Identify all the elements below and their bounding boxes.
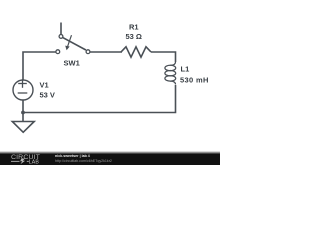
switch SW1 right terminal circle: [86, 50, 90, 54]
ground: [22, 113, 24, 122]
svg-text:L1: L1: [181, 64, 190, 73]
switch SW1 actuation arrow: [68, 35, 72, 46]
switch SW1 arrowhead: [65, 46, 70, 51]
junction node dot: [21, 111, 25, 115]
svg-text:53 V: 53 V: [40, 90, 55, 99]
svg-text:R1: R1: [129, 22, 139, 31]
wire inductor to bottom-right corner: [23, 85, 176, 113]
wire resistor to top-right corner: [151, 52, 176, 62]
CircuitLab logo: [11, 154, 40, 166]
voltage source V1: [13, 80, 33, 100]
switch SW1 blade: [63, 38, 86, 50]
svg-text:LAB: LAB: [29, 160, 40, 165]
svg-text:53 Ω: 53 Ω: [126, 32, 142, 41]
switch SW1 pole stub: [60, 23, 62, 35]
V1 plus sign: [18, 79, 28, 93]
inductor L1: [165, 62, 176, 85]
V1 minus sign: [18, 92, 28, 94]
svg-text:V1: V1: [40, 80, 49, 89]
switch SW1 pole circle: [59, 35, 63, 39]
labels: [40, 22, 209, 99]
svg-text:530 mH: 530 mH: [180, 75, 209, 84]
resistor R1: [121, 47, 151, 57]
switch SW1 left terminal circle: [56, 50, 60, 54]
wire switch to resistor: [90, 51, 122, 53]
wire V1 bottom: [22, 100, 24, 113]
svg-text:http://circuitlab.com/c6hETqy2: http://circuitlab.com/c6hETqy2k1kr2: [55, 159, 112, 163]
svg-text:nick.sweetser | lab 4: nick.sweetser | lab 4: [55, 154, 90, 158]
svg-text:SW1: SW1: [64, 58, 80, 67]
logo dashes and bolt: [11, 160, 20, 163]
wire top-left horizontal: [23, 52, 56, 80]
